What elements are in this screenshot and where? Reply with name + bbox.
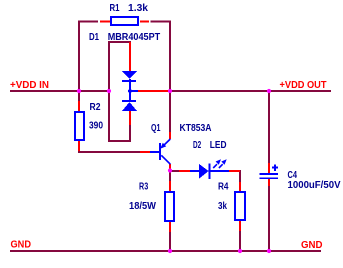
svg-text:R2: R2	[90, 102, 101, 113]
svg-text:MBR4045PT: MBR4045PT	[108, 32, 161, 43]
svg-text:D1: D1	[89, 32, 99, 43]
svg-text:R4: R4	[218, 182, 229, 193]
svg-text:1.3k: 1.3k	[128, 3, 148, 14]
svg-text:+VDD OUT: +VDD OUT	[280, 80, 327, 91]
svg-text:390: 390	[89, 121, 103, 132]
svg-text:Q1: Q1	[151, 123, 161, 134]
svg-text:R1: R1	[110, 3, 120, 14]
svg-text:GND: GND	[301, 240, 323, 251]
svg-text:LED: LED	[210, 140, 227, 151]
svg-text:+VDD IN: +VDD IN	[10, 80, 49, 91]
svg-text:18/5W: 18/5W	[129, 201, 157, 212]
svg-text:1000uF/50V: 1000uF/50V	[288, 180, 341, 191]
svg-text:D2: D2	[193, 140, 201, 151]
svg-text:3k: 3k	[218, 201, 227, 212]
svg-text:GND: GND	[11, 240, 32, 251]
svg-text:KT853A: KT853A	[180, 123, 212, 134]
svg-text:R3: R3	[139, 182, 149, 193]
